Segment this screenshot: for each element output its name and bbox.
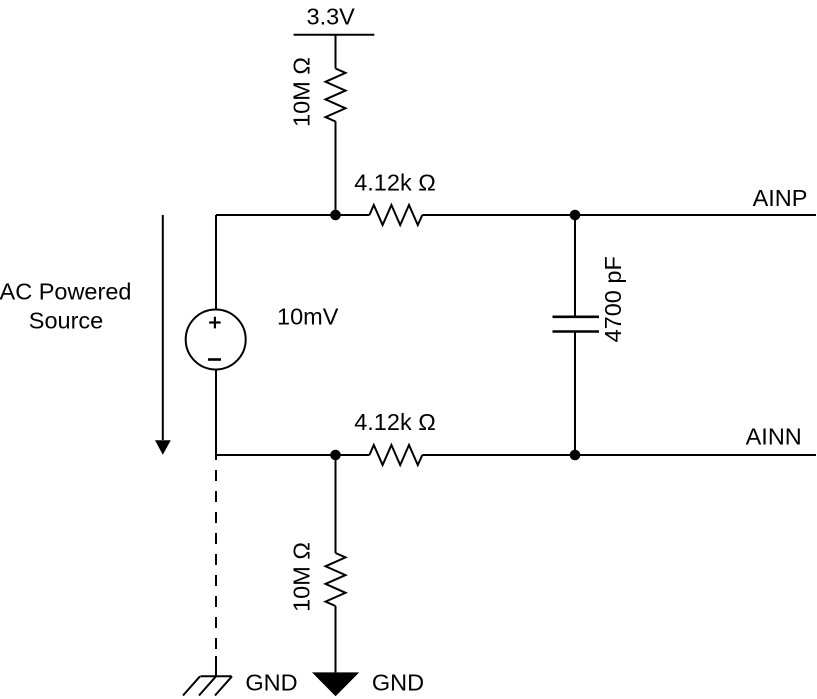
resistor R2 4.12k (AINP series) [369,205,422,225]
svg-text:Source: Source [29,308,103,334]
wire node A corner down to source [215,215,217,310]
svg-text:AC Powered: AC Powered [0,278,131,304]
svg-text:4.12k Ω: 4.12k Ω [354,170,436,196]
net label GND (power) [372,670,424,696]
earth ground hatch 3 [183,676,200,695]
label AC Powered Source line 2 [29,308,103,334]
value label 10M Ω (R4) [289,542,315,612]
wire rail to R1 [335,35,337,69]
svg-text:10M Ω: 10M Ω [289,57,315,127]
svg-text:10mV: 10mV [277,304,339,330]
V1 minus sign [208,358,221,361]
earth ground hatch 1 [215,676,232,695]
value label 10mV (V1) [277,304,339,330]
node A junction dot [330,210,341,221]
wire R1 to node A [335,122,337,216]
current flow arrow shaft [162,215,164,440]
dashed wire source to earth ground [215,455,217,662]
resistor R3 4.12k (AINN series) [369,445,422,465]
net label 3.3V [307,4,356,30]
earth ground bar [200,675,231,677]
net label GND (earth) [245,670,297,696]
wire top row left (source to node A) [216,214,369,216]
label AC Powered Source line 1 [0,278,131,304]
current flow arrow head [155,440,171,455]
value label 4.12k Ω (R3) [354,409,436,435]
capacitor C1 top lead [574,215,576,317]
svg-text:3.3V: 3.3V [307,4,356,30]
value label 4700 pF (C1) [600,256,626,342]
wire AINN net [422,454,816,456]
value label 4.12k Ω (R2) [354,170,436,196]
svg-text:GND: GND [245,670,297,696]
node C junction dot (AINN row) [330,450,341,461]
earth ground hatch 2 [199,676,216,695]
svg-text:AINN: AINN [746,423,802,449]
V1 plus sign [209,317,220,329]
svg-text:AINP: AINP [753,185,808,211]
voltage source V1 circle [186,310,246,370]
3.3V power rail bar [294,34,375,36]
wire bottom row left [216,454,369,456]
wire stub into earth ground [215,656,217,676]
wire node C to R4 [335,455,337,553]
capacitor C1 bottom lead [574,332,576,456]
net label AINP [753,185,808,211]
wire source bottom lead [215,370,217,456]
svg-text:10M Ω: 10M Ω [289,542,315,612]
net label AINN [746,423,802,449]
resistor R1 10M (top pull-up) [326,69,346,122]
resistor R4 10M (bottom pull-down) [326,553,346,606]
wire AINP net [422,214,816,216]
wire R4 to ground [335,606,337,672]
value label 10M Ω (R1) [289,57,315,127]
node D junction dot (AINN/cap) [570,450,581,461]
svg-text:GND: GND [372,670,424,696]
svg-text:4700 pF: 4700 pF [600,256,626,342]
capacitor C1 bottom plate [553,330,600,333]
svg-text:4.12k Ω: 4.12k Ω [354,409,436,435]
node B junction dot (AINP/cap) [570,210,581,221]
power ground triangle [312,672,359,696]
capacitor C1 top plate [553,315,600,318]
